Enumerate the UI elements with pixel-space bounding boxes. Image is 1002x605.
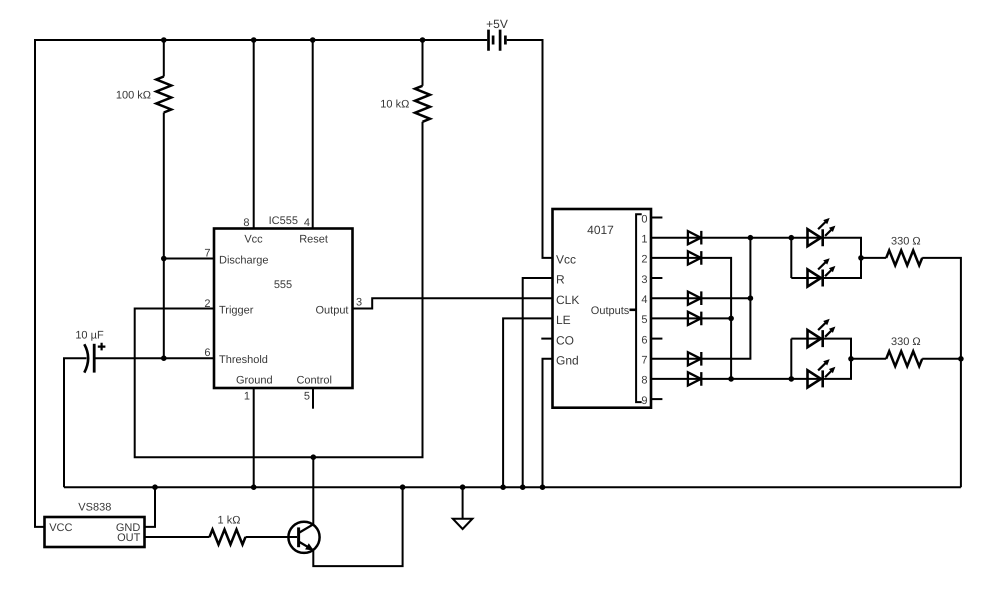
transistor Q1 emitter arrow [305,543,314,550]
junction dot bus LE [500,484,506,490]
svg-text:10 µF: 10 µF [75,330,104,342]
wire 4017 Gnd to bus [543,359,553,487]
wire 4017 R to bus [523,278,553,487]
svg-text:Vcc: Vcc [244,234,263,246]
wire output7 up to output1 [651,238,750,359]
svg-text:R: R [556,273,565,287]
wire LED group2 top row [791,339,851,359]
wire 4017 output stub 9 [651,398,662,400]
svg-text:Trigger: Trigger [219,305,254,317]
svg-text:VCC: VCC [49,522,72,534]
wire 4017 output stub 6 [651,338,662,340]
transistor Q1 base bar [297,527,300,547]
wire 4017 LE to bus [503,318,552,487]
wire R1 leads [163,40,165,358]
svg-text:8: 8 [641,375,647,387]
junction dot out5 [728,316,734,322]
junction dot rail R2 [420,37,426,43]
svg-text:555: 555 [274,279,292,291]
wire group1 mid to R4 [861,257,886,259]
svg-text:2: 2 [204,298,210,310]
svg-text:4: 4 [304,217,310,229]
wire collector up to trigger line [312,457,314,524]
wire LED group1 branch [790,238,792,278]
junction dot bus R [520,484,526,490]
wire top +5V rail [34,39,487,41]
svg-text:6: 6 [641,334,647,346]
svg-text:8: 8 [243,217,249,229]
wire 4017 output stub 0 [651,217,662,219]
junction dot threshold [161,355,167,361]
svg-text:Output: Output [315,305,348,317]
diode D1 [688,231,701,245]
diode D5 [688,352,701,366]
wire LED group1 bottom row [791,258,861,278]
wire LED group2 bottom row [791,359,851,379]
bracket 4017 outputs [636,214,642,402]
resistor R4 330 Ω [886,250,922,265]
wire R2 top lead [422,40,424,86]
capacitor C1 plus sign [98,343,106,351]
resistor R3 1 kΩ [210,530,246,545]
wire threshold to cap [94,357,214,359]
svg-text:Discharge: Discharge [219,255,269,267]
junction dot out8 [728,376,734,382]
tick outputs label [630,308,637,311]
LED L2 [808,269,823,286]
svg-text:Gnd: Gnd [556,354,579,368]
svg-text:CLK: CLK [556,293,579,307]
LED L4 [808,370,823,387]
transistor Q1 collector diagonal [299,524,314,533]
transistor Q1 emitter diagonal [299,542,314,551]
LED L3 arrows [818,322,832,336]
box VS838 [45,517,145,547]
wire VS838 OUT to R3 [145,536,210,538]
LED L1 arrows [818,222,832,236]
svg-text:1 kΩ: 1 kΩ [218,514,241,526]
junction dot discharge [161,256,167,262]
LED L1 [808,229,823,246]
junction dot out1 [748,235,754,241]
wire emitter return to bus [313,487,402,566]
LED L2 arrows [818,262,832,276]
junction dot rail R1 [161,37,167,43]
svg-text:Threshold: Threshold [219,354,268,366]
svg-text:LE: LE [556,313,571,327]
svg-text:3: 3 [356,297,362,309]
svg-text:5: 5 [304,390,310,402]
diode D3 [688,291,701,305]
junction dot led group2 in [789,376,795,382]
wire R3 to transistor base [246,536,298,538]
junction dot right rail [958,356,964,362]
capacitor C1 right plate [93,344,96,373]
ground symbol [453,519,473,529]
wire output1 row to LED group1 [651,238,861,258]
wire trigger net [135,122,423,457]
svg-text:1: 1 [244,390,250,402]
svg-text:+5V: +5V [486,17,508,31]
junction dot out4 [748,295,754,301]
svg-text:VS838: VS838 [78,502,111,514]
svg-text:2: 2 [641,254,647,266]
wire battery to 4017 Vcc [507,40,553,258]
resistor R1 100 kΩ [156,77,171,113]
wire output8 row to LED group2 [651,378,791,380]
svg-text:7: 7 [641,355,647,367]
junction dot led group1 in [789,235,795,241]
svg-text:OUT: OUT [117,532,141,544]
battery B1 +5V [489,30,501,51]
LED L3 [808,330,823,347]
wire discharge to R1 [164,258,214,260]
svg-text:Control: Control [296,375,331,387]
svg-text:330 Ω: 330 Ω [891,235,921,247]
junction dot bus Gnd [540,484,546,490]
wire R4 to right rail [922,258,961,487]
wire 555 pin1 to bus [253,388,255,487]
wire R5 to right rail [922,358,961,360]
wire 4017 CO stub [541,338,552,340]
box 555 IC [214,229,353,389]
transistor Q1 circle [288,522,319,553]
svg-text:Reset: Reset [299,234,328,246]
svg-text:0: 0 [641,213,647,225]
resistor R5 330 Ω [886,351,922,366]
wire output4 row [651,297,750,299]
wire output5 row [651,317,731,319]
wire left rail down to VS838 VCC [35,39,45,527]
svg-text:7: 7 [204,248,210,260]
wire 555 pin4 stub [312,40,314,229]
wire output2 down to output8 [651,258,731,379]
wire 555 pin8 stub [253,40,255,229]
ground stub [462,487,464,519]
svg-text:5: 5 [641,314,647,326]
svg-text:330 Ω: 330 Ω [891,336,921,348]
wire 555 output to 4017 CLK [353,298,553,308]
svg-text:Vcc: Vcc [556,253,576,267]
svg-text:100 kΩ: 100 kΩ [116,90,151,102]
wire VS838 GND to bus [145,487,156,527]
svg-text:9: 9 [641,395,647,407]
junction dot bus VS838 gnd [152,484,158,490]
capacitor C1 left plate [84,344,88,372]
svg-text:Ground: Ground [236,375,273,387]
LED L4 arrows [818,363,832,377]
junction dot rail pin8 [251,37,257,43]
svg-text:CO: CO [556,333,574,347]
svg-text:4: 4 [641,294,647,306]
svg-text:6: 6 [204,347,210,359]
svg-text:4017: 4017 [587,223,614,237]
svg-text:10 kΩ: 10 kΩ [380,99,409,111]
junction dot rail pin4 [310,37,316,43]
svg-text:1: 1 [641,234,647,246]
box 4017 IC [553,209,652,408]
svg-text:IC555: IC555 [269,215,298,227]
junction dot bus pin1 [251,484,257,490]
svg-text:Outputs: Outputs [591,305,630,317]
wire 4017 output stub 3 [651,277,662,279]
diode D4 [688,312,701,326]
junction dot bus ground [460,484,466,490]
wire 555 pin5 stub [312,388,314,409]
wire group2 mid to R5 [851,358,886,360]
junction dot led group2 out [848,356,854,362]
diode D6 [688,372,701,386]
junction dot bus emitter [400,484,406,490]
wire LED group2 branch [790,339,792,379]
junction dot led group1 out [858,255,864,261]
diode D2 [688,251,701,265]
svg-text:3: 3 [641,274,647,286]
junction dot collector trigger line [311,454,317,460]
resistor R2 10 kΩ [415,86,430,122]
wire ground bus [64,486,961,488]
wire cap left to ground bus [64,358,87,487]
